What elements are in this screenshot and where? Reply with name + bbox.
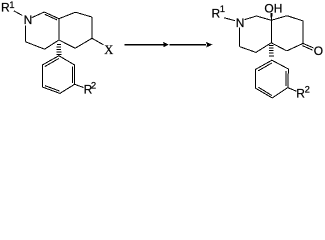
bond C8-C7 (product) — [287, 16, 303, 21]
reaction arrow 2 — [169, 42, 212, 48]
svg-text:N: N — [24, 13, 33, 27]
bond C8-C7 — [76, 12, 92, 17]
product label R2 — [296, 84, 310, 100]
bond N-C1 — [32, 12, 45, 18]
svg-text:O: O — [314, 44, 323, 58]
phenyl ring of product — [256, 60, 289, 98]
fusion bond C8a-C4a — [58, 19, 60, 40]
bond C3-N — [24, 26, 26, 42]
bond C4a-C4 — [45, 40, 59, 49]
hashed wedge C4a-phenyl — [56, 44, 61, 54]
product label R1 — [212, 4, 226, 20]
bond C4-C3 (product) — [240, 47, 256, 53]
bond C6-C5 — [75, 38, 92, 48]
svg-text:2: 2 — [91, 81, 96, 92]
bond phenyl-R2 — [75, 84, 84, 87]
bold wedge C8a-OH — [270, 13, 272, 20]
reactant label R2 — [84, 81, 97, 97]
svg-text:2: 2 — [305, 84, 310, 95]
bond C4-C3 — [25, 42, 44, 50]
svg-text:OH: OH — [264, 1, 282, 15]
svg-text:1: 1 — [9, 0, 14, 11]
bond C3-N (product) — [239, 28, 241, 47]
bond C7-C6 — [91, 17, 93, 38]
bond C6-C5 (product) — [287, 43, 303, 51]
bond N-C1 (product) — [245, 16, 257, 20]
hashed wedge C4a-phenyl (product) — [269, 45, 274, 55]
bond C6-X — [92, 38, 104, 45]
reaction arrow 1 — [125, 42, 170, 47]
svg-text:N: N — [236, 16, 245, 30]
phenyl ring of reactant — [42, 56, 74, 94]
bond C5-C4a — [59, 40, 75, 48]
bond C1-C8a (product) — [257, 16, 272, 20]
double bond C1=C8a — [44, 12, 59, 20]
bond R1-N (product) — [224, 18, 235, 21]
svg-text:X: X — [104, 43, 113, 57]
fusion bond C8a-C4a (product) — [270, 20, 272, 43]
bond C4a-C4 (product) — [256, 43, 271, 53]
ketone double bond C6=O — [302, 43, 313, 50]
bond C8a-C8 (product) — [271, 16, 287, 21]
bond C5-C4a (product) — [271, 43, 287, 51]
bond C8a-C8 — [59, 12, 76, 19]
reactant label R1 — [1, 0, 15, 14]
svg-text:1: 1 — [220, 4, 225, 15]
bond phenyl-R2 (product) — [288, 88, 297, 92]
bond C7-C6 (product) — [302, 21, 304, 43]
bond R1-N — [14, 11, 22, 16]
